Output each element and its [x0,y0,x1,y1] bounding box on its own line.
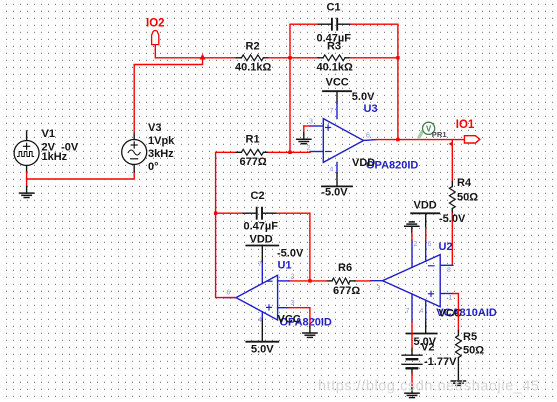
connector IO1 [464,136,479,143]
svg-text:V1: V1 [42,128,55,140]
svg-text:U1: U1 [278,260,292,272]
ground (U1 + input) [303,332,317,334]
wire U2 pin to V2 [411,322,413,349]
svg-text:2: 2 [291,274,295,281]
resistor R4 [451,182,453,187]
wire V2 to ground [411,374,413,387]
svg-text:6: 6 [428,241,432,248]
svg-text:2: 2 [307,145,311,152]
ground under V2 [405,392,419,394]
svg-text:https://blog.csdn.net/shaojie_: https://blog.csdn.net/shaojie_45 [318,379,540,395]
wire U2 + input to R5 [453,294,459,331]
svg-text:677Ω: 677Ω [333,285,360,297]
wire U3 output [376,139,464,141]
junction arrow at output node [449,141,453,146]
svg-text:-5.0V: -5.0V [277,247,304,259]
svg-text:0.47µF: 0.47µF [317,32,352,44]
svg-text:6: 6 [227,290,231,297]
op-amp U1 OPA820ID [236,275,278,320]
svg-text:IO2: IO2 [146,18,165,30]
svg-text:1kHz: 1kHz [42,151,68,163]
svg-text:50Ω: 50Ω [463,344,484,356]
wire U1 + input to ground [289,308,310,327]
svg-text:PR1: PR1 [432,130,448,139]
op-amp U3 OPA820ID [323,119,363,163]
svg-text:-5.0V: -5.0V [439,213,466,225]
wire C1 right to right vertical [351,24,398,139]
svg-text:VDD: VDD [414,200,437,212]
wire + input to ground [304,125,310,127]
svg-text:V2: V2 [421,342,434,354]
svg-text:7: 7 [258,261,262,268]
wire output node down to R4 [451,140,453,182]
ground under V1 [26,179,28,187]
svg-text:3: 3 [377,285,381,292]
resistor R6 [350,280,355,282]
svg-text:40.1kΩ: 40.1kΩ [317,62,354,74]
capacitor C1 [319,23,332,25]
wire R6 to U1 pin - [289,280,327,282]
svg-text:VCC: VCC [326,76,349,88]
probe PR1 [418,130,424,139]
power VDD (U3) [336,173,338,187]
resistor R3 [318,57,323,59]
svg-text:7: 7 [330,108,334,115]
svg-text:VDD: VDD [352,157,375,169]
sine source V3 [122,140,147,165]
wire V1 to V3 bottom rail [27,172,135,179]
svg-text:-1.77V: -1.77V [424,356,457,368]
svg-text:-5.0V: -5.0V [321,186,348,198]
svg-text:1: 1 [449,295,453,302]
svg-text:4: 4 [420,308,424,315]
svg-text:677Ω: 677Ω [240,156,267,168]
svg-text:VCC: VCC [278,313,301,325]
svg-text:VDD: VDD [250,233,273,245]
wire C2 right down to pin- node [277,213,310,281]
wire R2 to R3 [268,57,318,59]
svg-text:8: 8 [447,267,451,274]
svg-text:40.1kΩ: 40.1kΩ [235,62,272,74]
capacitor C2 [216,212,244,214]
svg-text:IO1: IO1 [456,119,475,131]
wire R1/feedback to U3 pin2 [267,151,310,153]
wire R3 to right vertical [350,57,398,59]
svg-text:50Ω: 50Ω [457,191,478,203]
op-amp U2 VCA810AID [383,255,441,307]
svg-text:R1: R1 [246,133,260,145]
svg-text:R4: R4 [457,177,472,189]
resistor R2 [236,57,241,59]
svg-text:R5: R5 [463,331,477,343]
svg-text:3: 3 [309,119,313,126]
svg-text:3: 3 [291,300,295,307]
svg-text:5.0V: 5.0V [251,344,274,356]
wire IO2 down to input node [155,45,236,58]
svg-text:V3: V3 [148,122,161,134]
power VCC (U1) [261,319,263,342]
svg-text:6: 6 [366,133,370,140]
battery V2 [411,349,413,355]
svg-text:R2: R2 [246,40,260,52]
resistor R1 [236,151,241,153]
svg-text:0.47µF: 0.47µF [244,220,279,232]
ground above U2 (inverted) [411,226,413,233]
ground (U3 + input) [297,138,311,140]
resistor R5 [457,331,459,336]
svg-text:1Vpk: 1Vpk [148,135,175,147]
clock source V1 [14,141,39,166]
svg-text:4: 4 [258,317,262,324]
svg-text:R6: R6 [338,262,352,274]
svg-text:7: 7 [406,308,410,315]
ground under R5 [451,380,465,382]
connector IO2 [152,30,159,44]
svg-text:3kHz: 3kHz [148,148,174,160]
svg-text:U2: U2 [439,241,453,253]
power VCC (U2) [425,322,427,334]
wire V3 top to input node [134,58,202,133]
svg-text:U3: U3 [364,103,378,115]
wire U1 output up left vertical [216,152,237,297]
svg-text:5.0V: 5.0V [352,91,375,103]
svg-text:C2: C2 [251,190,265,202]
svg-text:2: 2 [414,241,418,248]
svg-text:4: 4 [330,167,334,174]
junction arrow at input node [200,54,206,60]
wire C1 loop left vertical [290,24,319,152]
wire U2 out to R6 [355,280,371,282]
wire R4 to U2 pin - [451,214,453,266]
svg-text:0°: 0° [148,161,159,173]
svg-text:C1: C1 [327,2,341,14]
